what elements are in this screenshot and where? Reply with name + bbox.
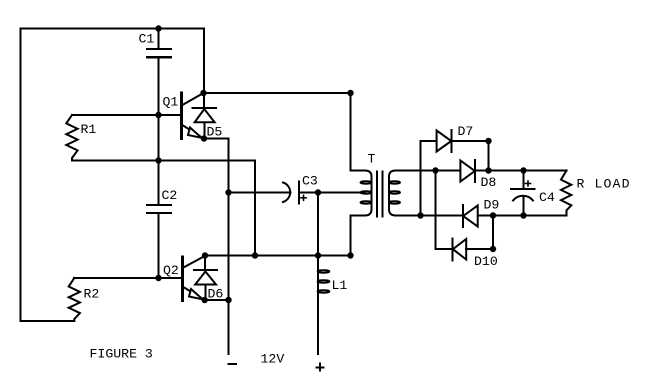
diode D5: [193, 93, 223, 140]
junction dot Q1 emitter: [201, 135, 207, 141]
junction dot Q2 emitter: [202, 297, 208, 303]
svg-text:D9: D9: [484, 198, 500, 213]
wire Q1 emitter to emitter rail: [204, 139, 229, 301]
wire secondary top to output: [400, 170, 567, 172]
svg-text:12V: 12V: [261, 351, 285, 366]
wire Q2 emitter to minus terminal: [205, 299, 229, 301]
wire left rail: [20, 29, 22, 322]
junction dot emitter rail C3 branch: [225, 189, 231, 195]
junction dot primary bottom at rail: [347, 252, 353, 258]
junction dot Q1 collector: [200, 90, 206, 96]
wire D7 anode branch: [421, 141, 437, 216]
capacitor C4: [511, 171, 555, 216]
resistor R2: [69, 278, 100, 321]
svg-text:D10: D10: [474, 254, 498, 269]
capacitor C1: [139, 29, 172, 58]
transformer T secondary winding: [389, 171, 402, 216]
svg-text:R2: R2: [84, 287, 100, 302]
junction dot L1 top: [315, 252, 321, 258]
wire R2 return bottom: [21, 320, 75, 322]
wire D10 cathode branch: [436, 171, 453, 250]
junction dot C3 output: [315, 189, 321, 195]
wire C1 to C2 bus: [158, 57, 160, 205]
capacitor C2: [147, 188, 177, 213]
junction dot D10 anode: [490, 246, 496, 252]
wire C3 junction down to supply rail: [317, 193, 319, 256]
wire top rail: [21, 29, 205, 94]
junction dot Q1 base node: [155, 112, 161, 118]
junction dot D7 cathode corner: [485, 138, 491, 144]
capacitor C3: [283, 174, 318, 204]
junction dot R1 bottom node: [155, 157, 161, 163]
diode D8: [460, 160, 496, 190]
label plus terminal: [316, 364, 323, 371]
wire C2 to Q2 base node: [158, 213, 160, 278]
wire secondary bottom to output: [400, 215, 567, 217]
svg-text:T: T: [368, 152, 376, 167]
junction dot C4 bottom: [520, 212, 526, 218]
transformer T primary winding: [351, 152, 376, 216]
junction dot secondary top D8 branch: [432, 167, 438, 173]
wire C3 to transformer center tap: [318, 192, 365, 194]
resistor R LOAD: [561, 171, 631, 216]
wire D9 to D10 link: [492, 216, 494, 250]
diode D9: [463, 198, 499, 228]
svg-text:D5: D5: [207, 125, 223, 140]
svg-text:Q1: Q1: [163, 95, 179, 110]
svg-text:R1: R1: [81, 122, 97, 137]
label minus terminal: [229, 363, 237, 365]
junction dot primary top feed: [347, 90, 353, 96]
wire emitter rail to C3: [229, 192, 291, 194]
wire primary bottom to supply rail: [350, 216, 352, 256]
resistor R1: [66, 115, 96, 161]
diode D10: [453, 239, 498, 270]
collector rail Q1 to transformer: [204, 92, 351, 94]
svg-text:FIGURE 3: FIGURE 3: [90, 347, 153, 362]
svg-text:D7: D7: [458, 124, 474, 139]
svg-text:C3: C3: [302, 174, 318, 189]
transformer T core: [377, 172, 383, 217]
wire supply rail collector Q2: [205, 255, 351, 257]
svg-text:C1: C1: [139, 32, 155, 47]
junction dot secondary bottom D9 branch: [417, 212, 423, 218]
wire R1 bottom cross-couple: [72, 161, 255, 256]
svg-text:C4: C4: [539, 190, 555, 205]
wire minus terminal: [228, 300, 230, 354]
junction dot C4 top: [520, 167, 526, 173]
wire Q2 base from R2: [74, 277, 183, 279]
svg-text:Q2: Q2: [163, 263, 179, 278]
transistor Q2: [163, 256, 205, 301]
junction dot D9 anode: [490, 212, 496, 218]
inductor L1: [318, 256, 348, 355]
wire R1 top to Q1 base: [72, 114, 182, 116]
svg-text:L1: L1: [332, 278, 348, 293]
wire D7 cathode down to output top: [488, 141, 490, 171]
wire primary top feed: [350, 93, 352, 171]
junction dot emitter rail bottom: [225, 297, 231, 303]
junction dot cross-couple to collector rail: [252, 252, 258, 258]
svg-text:R LOAD: R LOAD: [577, 177, 631, 192]
transistor Q1: [163, 93, 204, 139]
junction dot Q2 base node: [155, 275, 161, 281]
junction dot C1 top: [155, 25, 161, 31]
junction dot D7 to output top: [485, 167, 491, 173]
svg-text:D8: D8: [481, 175, 497, 190]
diode D7: [437, 124, 489, 152]
svg-text:C2: C2: [162, 188, 178, 203]
diode D6: [194, 256, 223, 302]
junction dot Q2 collector: [202, 252, 208, 258]
